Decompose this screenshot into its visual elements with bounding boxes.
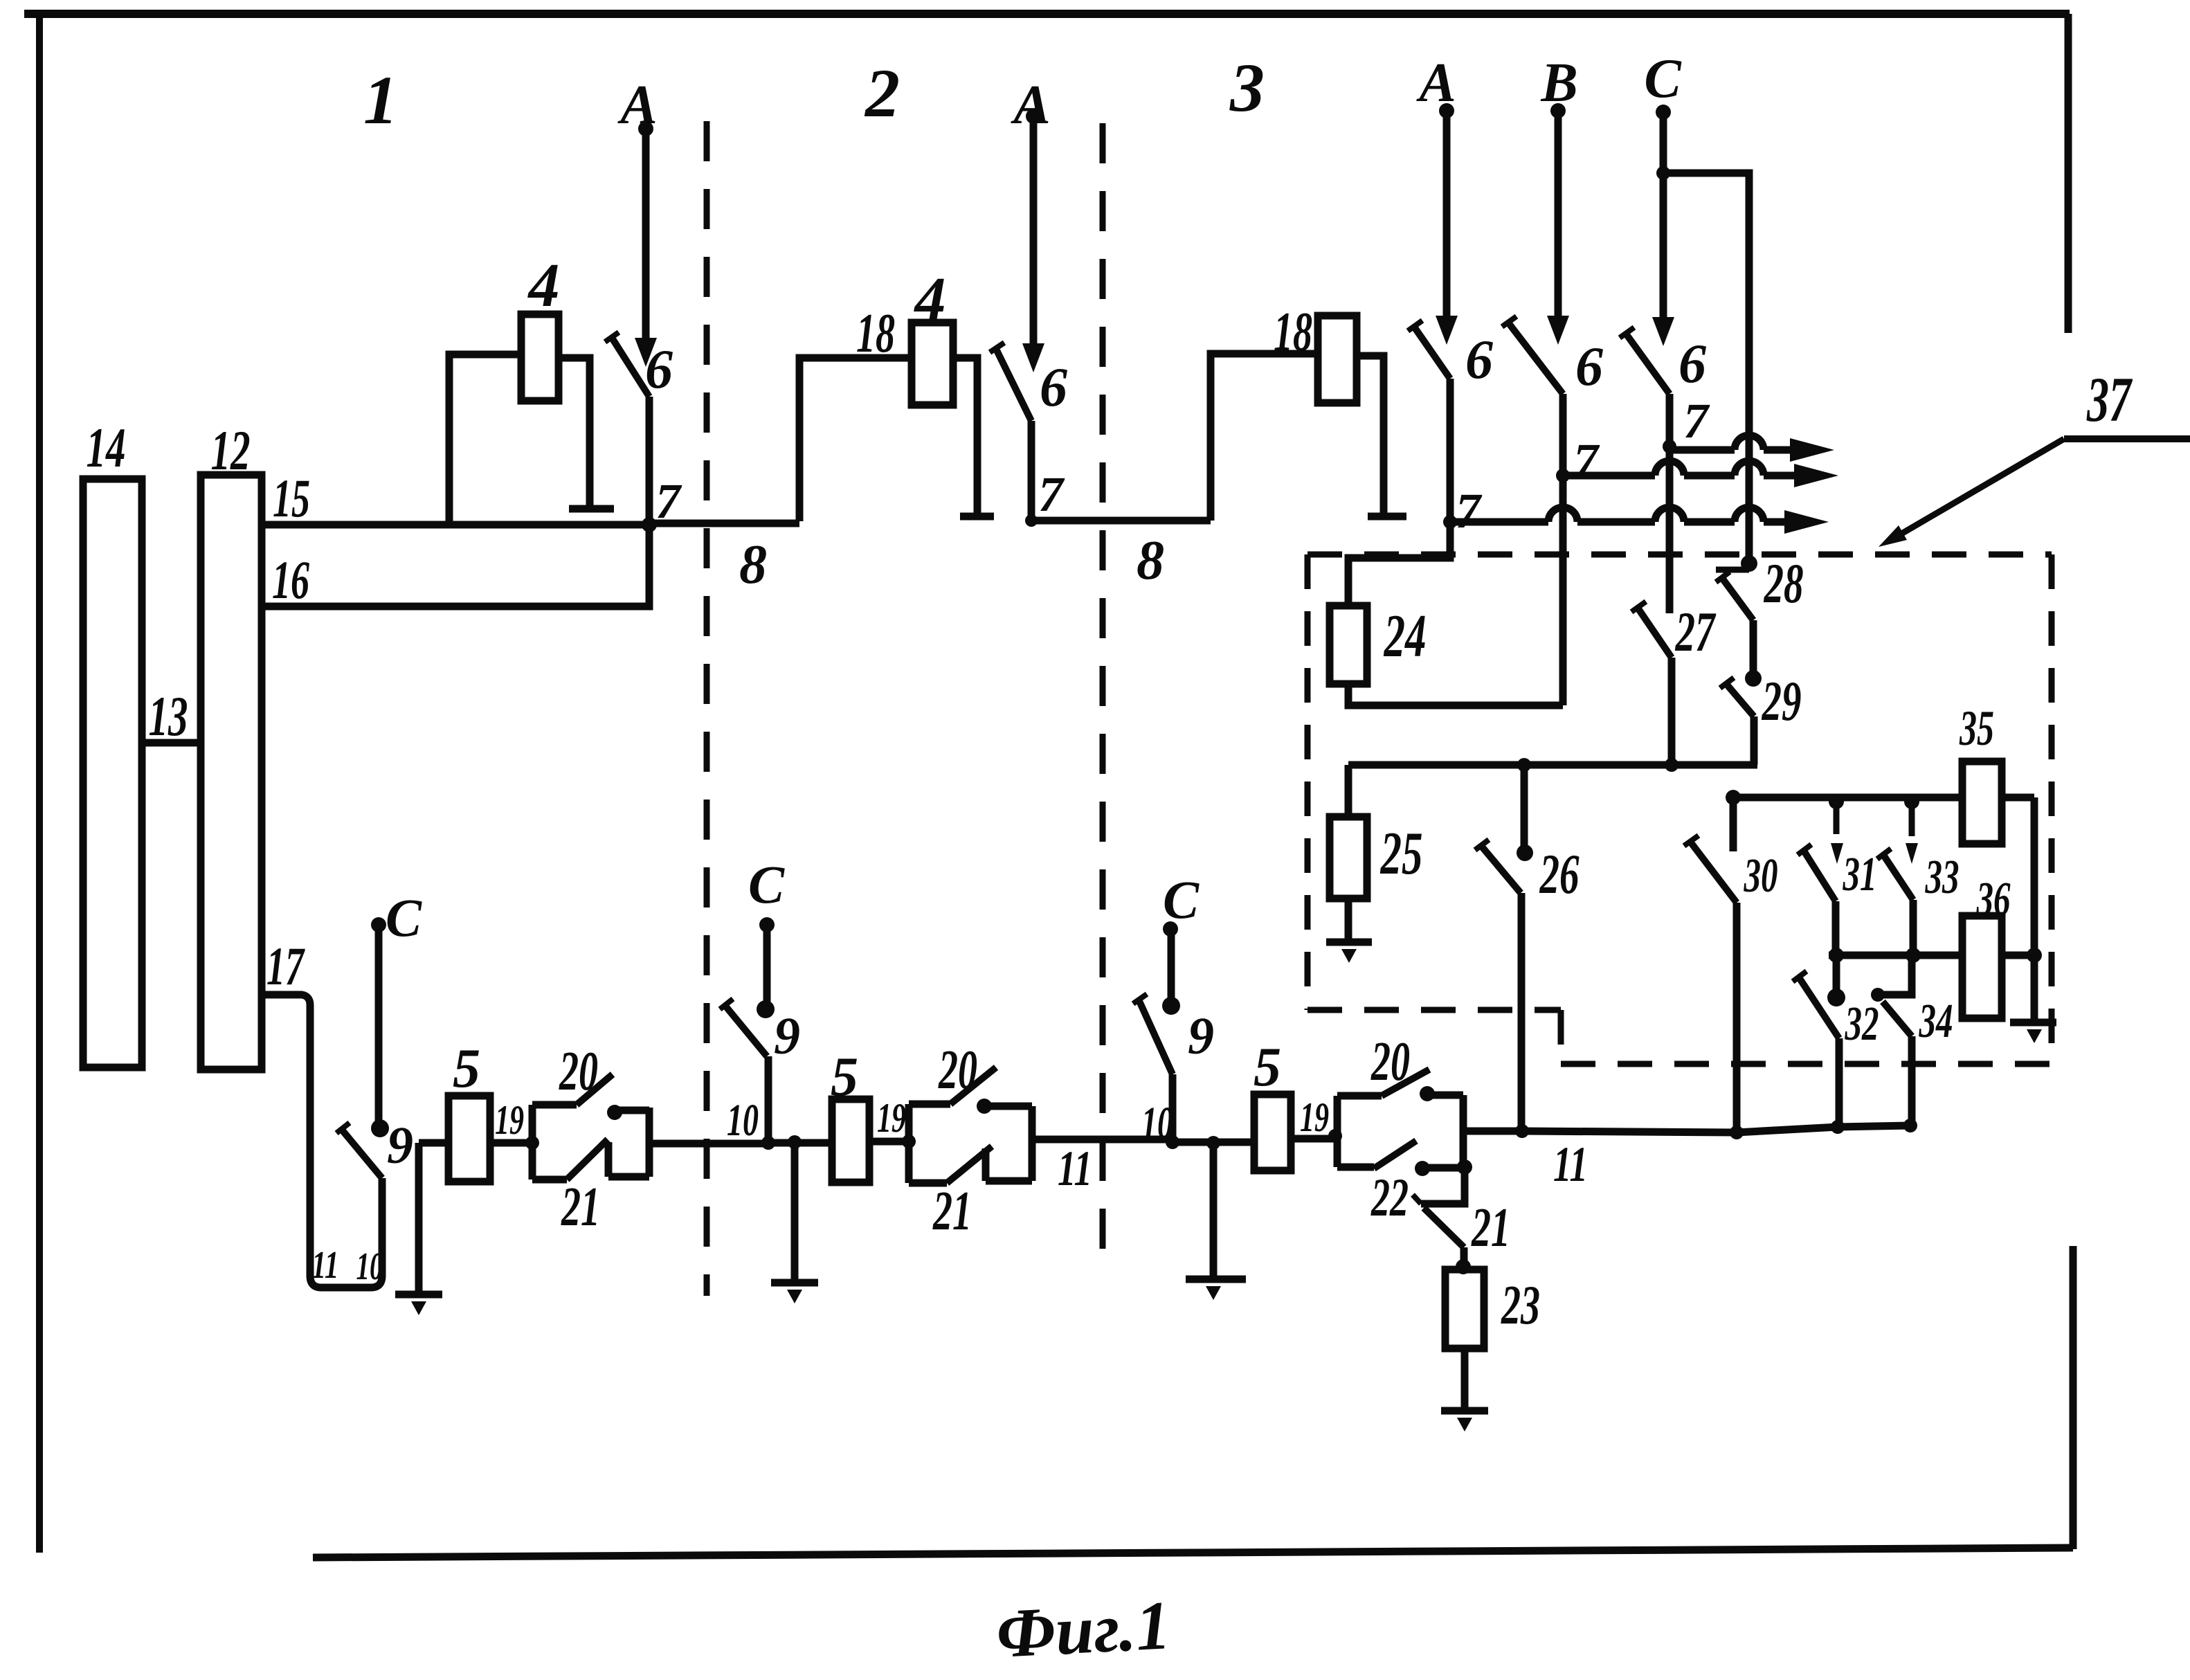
phase C lead (section 3) (1162, 997, 1180, 1015)
phase A lead (section 3) (1439, 103, 1454, 118)
svg-text:C: C (748, 854, 785, 914)
svg-text:24: 24 (1383, 603, 1426, 670)
wire 8 (section 2 to 3) (1031, 517, 1211, 525)
svg-text:27: 27 (1675, 600, 1717, 663)
border top (24, 10, 2070, 18)
ground (section 1) (415, 1143, 423, 1293)
svg-text:6: 6 (1040, 357, 1067, 418)
switch 6 blade (section 3 phase C) (1626, 334, 1669, 394)
svg-text:13: 13 (149, 685, 188, 748)
phase B lead (section 3) (1550, 103, 1566, 118)
switch 28 (1741, 555, 1757, 572)
wire resistor 24 bottom to node 7B (1348, 684, 1563, 705)
svg-text:5: 5 (1254, 1037, 1281, 1098)
svg-text:14: 14 (87, 416, 126, 479)
wire bus of switches 27/29 (1348, 761, 1757, 769)
dashed box 37 right edge (2049, 554, 2055, 1064)
svg-text:11: 11 (1058, 1141, 1092, 1196)
wire fuse right lead (section 3) (1357, 356, 1384, 514)
switch 9 blade (section 1) (341, 1129, 382, 1178)
border bottom (313, 1548, 2073, 1557)
node 7 (section 1) (642, 517, 657, 532)
svg-text:19: 19 (877, 1095, 906, 1141)
wire 11 (section 2 output) (1032, 1136, 1173, 1144)
svg-text:7: 7 (1683, 393, 1710, 449)
resistor 35 (1962, 761, 2002, 844)
wire 16 (260, 525, 649, 606)
svg-text:6: 6 (1465, 329, 1493, 390)
svg-text:33: 33 (1925, 851, 1960, 904)
svg-text:19: 19 (495, 1097, 524, 1143)
svg-text:1: 1 (363, 62, 398, 138)
phase A lead (section 1) (638, 121, 653, 136)
output row phase C (node 7 C, coil hop, arrow) (1669, 446, 1735, 454)
svg-text:9: 9 (774, 1007, 800, 1065)
border right upper segment (2065, 14, 2072, 333)
svg-text:21: 21 (1471, 1198, 1510, 1258)
svg-text:36: 36 (1976, 873, 2011, 926)
rail of switches 30/31/33 with resistor 35 (1726, 790, 1741, 805)
node 7 (section 2) (1025, 514, 1038, 527)
ground (right) (2010, 1019, 2056, 1027)
dashed box 37 bottom-right edge (1561, 1061, 2052, 1067)
dashed box 37 step edge (1558, 1010, 1564, 1064)
svg-text:8: 8 (739, 534, 767, 595)
switch 20 blade (section 2) (950, 1067, 996, 1104)
busbar 12 (201, 475, 262, 1069)
node 7 (section 3 phase B) and lead to resistor 24 (1559, 394, 1567, 705)
svg-text:31: 31 (1843, 848, 1877, 901)
wire 19 (section 3) (1291, 1135, 1337, 1143)
phase C lead (section 3) (1656, 105, 1671, 120)
svg-text:15: 15 (273, 468, 310, 528)
switch 31 (1829, 794, 1844, 809)
svg-text:22: 22 (1370, 1167, 1409, 1227)
svg-text:34: 34 (1919, 995, 1953, 1048)
wire fuse 4 right lead (section 1) (559, 358, 590, 506)
switch 30 (1730, 797, 1737, 851)
output row phase A (node 7 A, coil hops, arrow) (1450, 518, 1548, 526)
ground (section 3) (1206, 1136, 1220, 1150)
svg-text:3: 3 (1229, 49, 1265, 126)
svg-text:C: C (1644, 48, 1682, 109)
switch 9 lead (section 3) (1169, 1074, 1177, 1142)
switch 9 blade (section 2) (725, 1005, 767, 1056)
svg-text:21: 21 (932, 1181, 972, 1242)
switch 27 (1638, 608, 1672, 658)
wire 11 bus (section 2) (768, 1139, 832, 1147)
svg-text:8: 8 (1137, 530, 1164, 591)
svg-text:9: 9 (387, 1117, 413, 1175)
wire 11 (section 3 output and right bus) (1463, 1128, 1522, 1135)
resistor 5 (section 2) (832, 1099, 869, 1182)
resistor 25 (1345, 765, 1352, 817)
svg-text:18: 18 (856, 303, 895, 364)
svg-text:2: 2 (864, 55, 900, 132)
svg-text:A: A (1010, 75, 1050, 136)
svg-text:6: 6 (1678, 334, 1706, 395)
right vertical to ground (2031, 797, 2038, 1021)
border right lower segment (2070, 1246, 2077, 1549)
wire to fuse 4 (section 1) (449, 354, 521, 525)
ground (resistor 25) (1345, 898, 1352, 941)
switch 6 blade (section 1) (612, 338, 649, 397)
phase C lead (section 2) (757, 1000, 775, 1018)
svg-text:6: 6 (645, 339, 673, 400)
wire 11 bus (section 3) (1173, 1139, 1254, 1146)
svg-text:17: 17 (266, 936, 305, 996)
svg-text:4: 4 (527, 251, 560, 320)
svg-text:6: 6 (1575, 336, 1603, 397)
svg-text:23: 23 (1501, 1275, 1540, 1336)
switch 9 blade (section 3) (1139, 1000, 1173, 1074)
svg-text:18: 18 (1274, 302, 1312, 363)
switch 22 blade (section 3) (1337, 1164, 1374, 1171)
svg-text:20: 20 (938, 1040, 977, 1101)
svg-text:20: 20 (559, 1041, 598, 1102)
dashed box 37 bottom-left edge (1307, 1007, 1561, 1013)
switch 6 blade (section 2) (996, 349, 1031, 421)
svg-text:10: 10 (356, 1245, 383, 1288)
switch 21 (section 3) (1421, 1167, 1465, 1204)
switch 6 blade (section 3 phase B) (1508, 323, 1563, 394)
svg-text:10: 10 (1141, 1098, 1173, 1148)
resistor 5 (section 1) (449, 1096, 490, 1182)
contact bar of switch 6 (section 3 phase A) (1368, 513, 1406, 521)
resistor 23 (1445, 1270, 1484, 1348)
contact block rails (section 3) (1334, 1096, 1341, 1167)
dashed box 37 top edge (1307, 552, 2052, 558)
wire node 7A to resistor 24 (1348, 522, 1450, 606)
wire 19 (section 1) (490, 1139, 532, 1147)
wire 8 riser (section 3) (1211, 354, 1318, 521)
svg-text:19: 19 (1300, 1094, 1329, 1140)
svg-text:20: 20 (1370, 1031, 1410, 1092)
dashed box 37 left edge (1305, 554, 1311, 1010)
fuse 18 (section 3) (1318, 316, 1357, 403)
switch 26 (1517, 758, 1531, 772)
switch 21 blade (section 2) (909, 1180, 947, 1187)
switch 34 (1881, 955, 1912, 995)
switch 29 (1745, 670, 1762, 687)
svg-text:7: 7 (1573, 433, 1600, 489)
svg-text:5: 5 (831, 1047, 858, 1108)
busbar 14 (83, 479, 142, 1067)
svg-text:10: 10 (727, 1095, 759, 1146)
svg-text:7: 7 (1456, 483, 1483, 539)
section divider dashed line 1 (704, 121, 710, 1296)
mid rail with resistor 36 (1829, 952, 1962, 959)
link 13 (142, 739, 201, 747)
section divider dashed line 2 (1100, 123, 1106, 1254)
switch 21 blade (section 1) (532, 1176, 567, 1184)
wire 8 (section 1 to 2) (649, 520, 799, 527)
wire 11 (section 1 output) (649, 1140, 768, 1148)
contact block rails (section 1) (529, 1105, 536, 1180)
wire 19 (section 2) (869, 1138, 909, 1146)
contact bar of switch 6 (section 2) (960, 513, 994, 521)
phase A lead (section 2) (1026, 109, 1041, 124)
switch 6 blade (section 3 phase A) (1414, 327, 1450, 379)
svg-text:28: 28 (1764, 552, 1804, 615)
resistor 36 (1962, 916, 2002, 1018)
wire 8 riser (section 2) (799, 358, 912, 521)
ground (resistor 23) (1461, 1348, 1469, 1409)
svg-text:11: 11 (1553, 1137, 1588, 1192)
svg-text:29: 29 (1762, 669, 1802, 732)
contact bar of switch 6 (section 1) (569, 505, 614, 513)
svg-text:37: 37 (2086, 364, 2133, 435)
svg-text:16: 16 (272, 550, 309, 610)
wire fuse right lead (section 2) (953, 358, 977, 514)
resistor 24 (1330, 606, 1367, 684)
phase C lead (section 1) (371, 917, 386, 932)
wire 11 bus (section 1 left) (419, 1139, 449, 1147)
svg-text:A: A (1415, 53, 1456, 114)
svg-text:26: 26 (1539, 842, 1580, 905)
resistor 5 (section 3) (1254, 1094, 1291, 1171)
switch 32 (1833, 955, 1840, 990)
svg-text:11: 11 (312, 1244, 339, 1287)
svg-text:4: 4 (914, 265, 946, 334)
wire 15 (262, 521, 649, 529)
svg-text:7: 7 (1038, 467, 1065, 522)
switch 9 lead (section 2) (765, 1056, 772, 1143)
node 7 (section 3 phase C) and lead to switch 27 (1666, 394, 1674, 613)
label 37 leader line (2064, 435, 2190, 442)
svg-text:C: C (386, 887, 422, 948)
contact block rails (section 2) (905, 1104, 913, 1183)
svg-text:21: 21 (561, 1177, 600, 1238)
switch 20 blade (section 3) (1382, 1069, 1429, 1096)
border left (36, 14, 43, 1553)
switch 20 blade (section 1) (577, 1074, 613, 1105)
svg-text:12: 12 (211, 419, 251, 482)
phase C tap wire to switch 28 (1656, 166, 1670, 180)
fuse 4 (section 1) (521, 314, 559, 401)
svg-text:Фиг.1: Фиг.1 (995, 1587, 1173, 1672)
ground (section 2) (788, 1135, 802, 1149)
svg-text:7: 7 (655, 473, 682, 529)
fuse 4/18 (section 2) (912, 323, 953, 405)
svg-text:9: 9 (1188, 1007, 1214, 1065)
svg-text:C: C (1163, 869, 1200, 930)
svg-text:25: 25 (1379, 820, 1422, 887)
svg-text:B: B (1540, 53, 1577, 114)
wire 17 (262, 995, 382, 1288)
svg-text:30: 30 (1744, 849, 1778, 903)
svg-text:5: 5 (453, 1038, 480, 1099)
node 7 (section 3 phase A) (1443, 515, 1457, 529)
svg-text:32: 32 (1845, 997, 1879, 1051)
output row phase B (node 7 B, coil hops, arrow) (1563, 472, 1655, 480)
svg-text:35: 35 (1959, 701, 1994, 756)
svg-text:A: A (617, 75, 657, 136)
switch 33 (1904, 794, 1919, 809)
